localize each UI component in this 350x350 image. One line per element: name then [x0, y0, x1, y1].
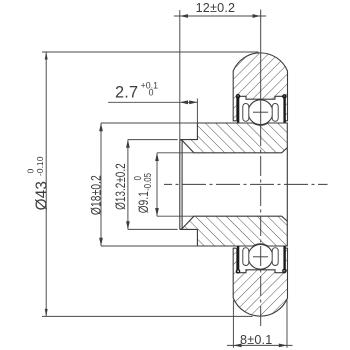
dim 2.7 dimension line — [108, 101, 197, 103]
dim Ø18 extension bottom — [101, 245, 197, 247]
svg-text:-0.10: -0.10 — [35, 156, 45, 176]
dim 8 dimension line — [227, 344, 293, 346]
ball bottom center tick — [253, 256, 268, 258]
cage land top-left — [243, 104, 249, 122]
seal bottom-right — [283, 246, 285, 270]
seal top-right — [283, 97, 285, 122]
dim Ø43 label — [26, 156, 51, 210]
dim 2.7 right extension line — [196, 99, 198, 124]
cage land bottom-left — [243, 248, 249, 266]
countersink inner edge line — [181, 140, 183, 228]
hub (extended inner ring) bottom half section — [180, 216, 287, 246]
dim Ø9.1 extension bottom — [157, 215, 194, 217]
ball plane vertical centerline — [260, 10, 262, 127]
hub (extended inner ring) top half section — [180, 123, 287, 153]
dim Ø18 extension top — [101, 122, 197, 124]
ball top — [248, 100, 273, 125]
dim 8 left extension line — [232, 300, 234, 348]
svg-text:Ø18±0.2: Ø18±0.2 — [88, 175, 104, 215]
horizontal axis centerline — [164, 183, 328, 185]
dim 8 right extension line — [286, 299, 288, 348]
dim Ø13.2 extension top — [128, 139, 178, 141]
seal bottom-left — [237, 246, 239, 270]
dim Ø9.1 label — [132, 173, 153, 213]
ball top center tick — [253, 111, 268, 113]
svg-text:0: 0 — [149, 88, 154, 98]
dim 12 left extension line — [179, 10, 181, 140]
svg-text:2.7: 2.7 — [115, 84, 138, 102]
ball bottom — [248, 244, 273, 269]
dim Ø43 extension bottom — [42, 315, 253, 317]
dim Ø43 extension top — [42, 51, 259, 53]
hub left face line (Ø13.2 collar face) — [179, 140, 181, 230]
dim 12 dimension line — [174, 15, 266, 17]
svg-text:Ø9.1: Ø9.1 — [136, 191, 152, 213]
outer ring (crowned OD) top section — [233, 53, 287, 121]
svg-text:-0.05: -0.05 — [142, 173, 153, 191]
svg-text:Ø43: Ø43 — [33, 181, 50, 211]
hub right face line across bore — [286, 148, 288, 222]
svg-text:0: 0 — [26, 169, 36, 174]
dim Ø13.2 extension bottom — [128, 228, 178, 230]
dim Ø13.2 dimension line — [127, 140, 129, 230]
dim Ø9.1 dimension line — [156, 153, 158, 216]
dim Ø9.1 extension top — [157, 152, 194, 154]
cage land bottom-right — [272, 248, 278, 266]
svg-text:Ø13.2±0.2: Ø13.2±0.2 — [112, 163, 128, 210]
outer ring (crowned OD) bottom section — [233, 248, 287, 316]
dim Ø18 label — [88, 175, 104, 215]
cage land top-right — [272, 104, 278, 122]
dim Ø13.2 label — [112, 163, 128, 210]
svg-text:12±0.2: 12±0.2 — [196, 1, 236, 15]
seal top-left — [237, 97, 239, 122]
dim Ø18 dimension line — [100, 123, 102, 246]
dim Ø43 dimension line — [45, 52, 47, 316]
svg-text:8±0.1: 8±0.1 — [240, 333, 272, 347]
